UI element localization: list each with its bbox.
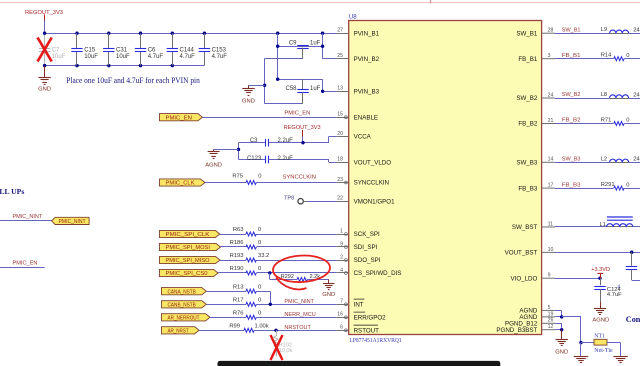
svg-text:L2: L2 <box>601 156 607 162</box>
svg-text:PMIC_SPI_CLK: PMIC_SPI_CLK <box>166 232 210 238</box>
net flag PMIC_SPI_MOSI <box>160 243 221 250</box>
net flag CANA_NSTB <box>162 288 207 295</box>
svg-text:VOUT_VLDO: VOUT_VLDO <box>354 159 392 166</box>
net tie NT1 <box>579 341 582 344</box>
svg-text:C31: C31 <box>116 48 128 54</box>
wire PVIN top rail <box>45 33 337 35</box>
svg-text:L9: L9 <box>601 27 607 33</box>
svg-text:20: 20 <box>337 131 343 137</box>
svg-text:4.7uF: 4.7uF <box>180 54 196 60</box>
ground GND (R292) <box>328 279 330 283</box>
svg-text:NRSTOUT: NRSTOUT <box>284 325 311 331</box>
junction dots top rail <box>43 32 46 35</box>
svg-text:R99: R99 <box>229 323 240 329</box>
pin 23 active marker <box>345 181 348 184</box>
svg-text:NERR_MCU: NERR_MCU <box>284 312 315 318</box>
wire C9 bottom loop <box>265 58 303 60</box>
net flag PMIC_EN <box>160 114 203 121</box>
ground GND (C9/C58) <box>249 85 265 87</box>
svg-text:1uF: 1uF <box>310 86 321 92</box>
ground (net-tie left) <box>580 343 582 357</box>
capacitor C58 <box>302 79 304 89</box>
net flag PMIC_SPI_MISO <box>160 256 221 263</box>
svg-text:FB_B2: FB_B2 <box>562 118 581 124</box>
svg-text:L8: L8 <box>601 92 607 98</box>
wire AGND pin5 <box>542 309 555 311</box>
svg-text:1: 1 <box>340 228 343 234</box>
svg-text:10uF: 10uF <box>84 54 98 60</box>
ground GND (PGND) <box>561 330 563 340</box>
svg-text:R75: R75 <box>232 174 243 180</box>
capacitor C31 <box>108 33 110 48</box>
svg-text:28: 28 <box>548 28 554 34</box>
svg-text:2.2uF: 2.2uF <box>278 156 294 162</box>
resistor R76 <box>210 317 246 319</box>
svg-text:SYNCCLKIN: SYNCCLKIN <box>354 180 389 187</box>
wire to chip <box>256 260 336 262</box>
svg-text:R190: R190 <box>230 266 244 272</box>
svg-text:PULL UPs: PULL UPs <box>0 187 24 196</box>
svg-text:PGND_B3BST: PGND_B3BST <box>496 327 537 334</box>
svg-text:FB_B2: FB_B2 <box>518 121 537 128</box>
svg-text:PMIC_EN: PMIC_EN <box>284 111 310 117</box>
svg-text:24: 24 <box>633 28 640 34</box>
wire TP8 to VMON1 <box>303 201 308 203</box>
svg-text:CANA_NSTB: CANA_NSTB <box>168 289 197 295</box>
svg-text:24: 24 <box>633 92 640 98</box>
wire SW_BST row <box>542 226 555 228</box>
svg-text:0: 0 <box>258 266 261 272</box>
resistor R291 row FB_B3 <box>542 187 555 189</box>
pin edge marker <box>345 329 348 332</box>
ground (net-tie right) <box>613 356 628 358</box>
red X over R102 <box>271 335 283 360</box>
pin 15 active marker <box>345 116 348 119</box>
wire net-tie right <box>607 342 621 344</box>
svg-text:AR_NERROUT: AR_NERROUT <box>168 315 201 321</box>
svg-text:0: 0 <box>626 118 629 124</box>
svg-text:PVIN_B3: PVIN_B3 <box>354 89 380 96</box>
wire NRSTOUT <box>254 330 336 332</box>
svg-text:R13: R13 <box>233 284 244 290</box>
svg-text:PMIC_NINT: PMIC_NINT <box>59 219 87 225</box>
pin overline INT <box>354 298 365 300</box>
svg-text:Net-Tie: Net-Tie <box>594 348 613 354</box>
svg-text:9: 9 <box>340 241 343 247</box>
net flag AR_NRST <box>162 327 200 334</box>
svg-text:3: 3 <box>548 53 551 59</box>
svg-text:ENABLE: ENABLE <box>354 114 378 121</box>
svg-text:TP8: TP8 <box>284 196 294 202</box>
svg-text:+3.3VD: +3.3VD <box>591 267 610 273</box>
resistor R102 (deleted, gray) <box>276 330 278 336</box>
wire VOUT_BST row <box>542 251 555 253</box>
svg-text:AR_NRST: AR_NRST <box>168 328 190 334</box>
svg-text:RSTOUT: RSTOUT <box>354 328 380 335</box>
pin edge marker <box>345 316 348 319</box>
svg-text:CANB_NSTB: CANB_NSTB <box>168 302 197 308</box>
resistor R13 <box>206 291 246 293</box>
svg-text:22: 22 <box>337 196 343 202</box>
svg-text:R76: R76 <box>233 310 244 316</box>
pin edge marker <box>345 272 348 275</box>
wire PMIC_NINT left <box>0 220 52 222</box>
svg-text:INT: INT <box>354 302 364 309</box>
svg-text:LP877451A1RXVRQ1: LP877451A1RXVRQ1 <box>349 337 401 344</box>
svg-text:Conn: Conn <box>626 315 640 324</box>
pin overline RSTOUT <box>354 324 378 326</box>
junction dots C9/C58 <box>276 45 279 48</box>
svg-text:C58: C58 <box>285 86 297 92</box>
ground AGND (C3/C123) <box>214 149 239 151</box>
svg-text:0: 0 <box>258 174 261 180</box>
svg-text:C153: C153 <box>212 48 227 54</box>
svg-text:SYNCCLKIN: SYNCCLKIN <box>283 174 317 180</box>
svg-text:15: 15 <box>337 112 343 118</box>
svg-text:GND: GND <box>242 99 255 105</box>
svg-text:SDI_SPI: SDI_SPI <box>354 244 378 251</box>
wire to chip <box>256 272 336 274</box>
ground GND (C7) <box>44 66 46 78</box>
svg-text:SDO_SPI: SDO_SPI <box>354 257 381 264</box>
junction R292 tap <box>268 271 271 274</box>
net flag PMIC_NINT (box) <box>52 217 90 224</box>
capacitor C123 <box>239 159 266 161</box>
svg-text:13: 13 <box>337 86 343 92</box>
svg-text:AGND: AGND <box>592 318 609 324</box>
svg-text:0: 0 <box>258 227 261 233</box>
svg-text:2: 2 <box>340 254 343 260</box>
svg-text:0: 0 <box>258 240 261 246</box>
black redaction bar <box>218 361 501 366</box>
wire SYNCCLKIN <box>256 182 336 184</box>
svg-text:VMON1/GPO1: VMON1/GPO1 <box>354 198 395 205</box>
svg-text:PMIC_NINT: PMIC_NINT <box>13 214 43 220</box>
resistor R63 <box>220 234 246 236</box>
wire VCCA <box>303 142 329 144</box>
wire AGND pin19 <box>542 316 555 318</box>
svg-text:R291: R291 <box>601 182 615 188</box>
svg-text:R63: R63 <box>233 227 244 233</box>
svg-text:R17: R17 <box>233 297 244 303</box>
svg-text:R14: R14 <box>601 53 612 59</box>
svg-text:C15: C15 <box>84 48 96 54</box>
resistor R193 <box>220 260 246 262</box>
pin edge marker <box>345 303 348 306</box>
svg-text:SW_B1: SW_B1 <box>562 27 581 33</box>
capacitor C153 <box>204 33 206 48</box>
svg-text:0: 0 <box>258 310 261 316</box>
wire VIO_LDO row <box>542 277 555 279</box>
capacitor C6 <box>140 33 142 48</box>
svg-text:C3: C3 <box>250 138 258 144</box>
svg-text:0: 0 <box>626 182 629 188</box>
resistor R14 row FB_B1 <box>542 58 555 60</box>
svg-text:NT1: NT1 <box>594 333 605 339</box>
red circle annotation around R292 <box>272 254 330 283</box>
svg-text:AGND: AGND <box>205 162 222 168</box>
svg-text:0: 0 <box>626 53 629 59</box>
svg-text:PMIC_SPI_MOSI: PMIC_SPI_MOSI <box>166 245 211 251</box>
svg-text:1uF: 1uF <box>310 40 321 46</box>
wire C58 row <box>278 79 323 81</box>
svg-text:33.2: 33.2 <box>258 253 269 259</box>
resistor R186 <box>221 246 247 248</box>
svg-text:PMIC_NINT: PMIC_NINT <box>284 299 314 305</box>
svg-text:Place one 10uF and 4.7uF for e: Place one 10uF and 4.7uF for each PVIN p… <box>66 75 200 85</box>
svg-text:GND: GND <box>38 86 51 92</box>
wire PVIN_B2 branch vertical x=322.6 <box>322 33 324 59</box>
pin edge marker <box>345 233 348 236</box>
svg-text:C123: C123 <box>247 156 262 162</box>
svg-text:L1: L1 <box>600 222 606 228</box>
svg-text:FB_B1: FB_B1 <box>562 53 581 59</box>
net flag CANB_NSTB <box>162 301 207 308</box>
svg-text:GND: GND <box>322 292 335 298</box>
ground AGND (C124) <box>600 302 602 309</box>
svg-text:C9: C9 <box>289 40 297 46</box>
resistor R99 <box>199 330 244 332</box>
wire SW_B2 row <box>542 97 555 99</box>
svg-text:R71: R71 <box>601 118 612 124</box>
svg-text:C7: C7 <box>52 48 60 54</box>
svg-text:SW_BST: SW_BST <box>512 224 538 231</box>
wire PMIC_EN left <box>0 267 45 269</box>
wire vertical x=277.7 <box>277 33 279 79</box>
svg-text:23: 23 <box>337 177 343 183</box>
wire PGND pin26 <box>542 322 555 324</box>
svg-text:SW_B3: SW_B3 <box>516 160 538 167</box>
pin 27 stub <box>337 33 349 35</box>
svg-text:PMIC_CLK: PMIC_CLK <box>166 181 195 187</box>
top pink border line <box>0 2 640 4</box>
wire PMIC_EN to ENABLE <box>202 117 336 119</box>
svg-text:C144: C144 <box>180 48 195 54</box>
svg-text:4.7uF: 4.7uF <box>607 292 622 298</box>
capacitor C7 (deleted, gray) <box>44 33 46 48</box>
resistor R292 <box>269 273 271 279</box>
pin edge marker <box>345 246 348 249</box>
wire SW_B3 row <box>542 161 555 163</box>
wire PGND pin12 <box>542 329 555 331</box>
net flag AR_NERROUT <box>162 314 211 321</box>
pin overline ERR <box>354 311 366 313</box>
wire to pin 25 <box>323 58 337 60</box>
resistor R71 row FB_B2 <box>542 123 555 125</box>
svg-text:R193: R193 <box>230 253 244 259</box>
svg-text:10uF: 10uF <box>52 54 66 60</box>
svg-text:PMIC_EN: PMIC_EN <box>166 115 193 121</box>
capacitor C3 <box>239 142 266 144</box>
svg-text:SW_B2: SW_B2 <box>516 95 538 102</box>
svg-text:PMIC_SPI_MISO: PMIC_SPI_MISO <box>166 258 210 264</box>
svg-text:2.2uF: 2.2uF <box>278 138 294 144</box>
svg-text:27: 27 <box>337 28 343 34</box>
svg-text:4.7uF: 4.7uF <box>212 54 228 60</box>
junction dots bottom rail <box>43 64 46 67</box>
svg-text:C6: C6 <box>148 48 156 54</box>
wire SW_B1 row <box>542 32 555 34</box>
svg-text:PMIC_SPI_CS0: PMIC_SPI_CS0 <box>166 271 208 277</box>
svg-text:1.00k: 1.00k <box>255 323 269 329</box>
svg-text:16: 16 <box>337 312 343 318</box>
svg-text:VOUT_BST: VOUT_BST <box>505 250 538 257</box>
net flag PMIC_SPI_CLK <box>160 230 220 237</box>
svg-text:FB_B3: FB_B3 <box>562 182 581 188</box>
net flag PMIC_CLK <box>160 179 206 186</box>
wire REGOUT_3V3 to PVIN rail <box>44 21 46 34</box>
svg-text:R186: R186 <box>230 240 244 246</box>
wire C3-C123 vertical <box>238 143 240 160</box>
capacitor C124 <box>600 278 602 285</box>
resistor R190 <box>218 272 246 274</box>
net flag PMIC_SPI_CS0 <box>160 269 219 276</box>
wire to chip <box>256 234 336 236</box>
svg-text:SW_B1: SW_B1 <box>516 30 538 37</box>
op-amp U8 body (PMIC) <box>349 21 542 335</box>
svg-text:VIO_LDO: VIO_LDO <box>510 275 537 282</box>
svg-text:4.7uF: 4.7uF <box>148 54 164 60</box>
svg-text:7: 7 <box>340 299 343 305</box>
svg-text:24: 24 <box>633 157 640 163</box>
capacitor C9 <box>297 45 308 47</box>
svg-text:PVIN_B2: PVIN_B2 <box>354 56 380 63</box>
svg-text:CS_SPI/WD_DIS: CS_SPI/WD_DIS <box>354 270 402 277</box>
svg-text:FB_B1: FB_B1 <box>518 56 537 63</box>
svg-text:PVIN_B1: PVIN_B1 <box>354 30 380 37</box>
red X over C7 <box>38 38 52 62</box>
svg-text:ERR/GPO2: ERR/GPO2 <box>354 315 387 322</box>
svg-text:25: 25 <box>337 53 343 59</box>
svg-text:0: 0 <box>258 284 261 290</box>
wire PMIC_NINT to INT pin <box>256 304 336 306</box>
svg-text:SCK_SPI: SCK_SPI <box>354 231 380 238</box>
svg-text:6: 6 <box>340 325 343 331</box>
svg-text:SW_B2: SW_B2 <box>562 92 581 98</box>
svg-text:VCCA: VCCA <box>354 134 372 141</box>
capacitor at VOUT_BST <box>631 252 633 266</box>
wire R13 to node <box>256 291 270 293</box>
svg-text:10uF: 10uF <box>116 54 130 60</box>
wire NERR_MCU <box>256 317 336 319</box>
junction R102 tap <box>274 329 277 332</box>
svg-text:PMIC_EN: PMIC_EN <box>13 260 38 266</box>
resistor R75 <box>205 182 246 184</box>
svg-text:SW_B3: SW_B3 <box>562 157 581 163</box>
svg-text:18: 18 <box>337 157 343 163</box>
wire PVIN bottom rail <box>45 65 205 67</box>
capacitor C144 <box>172 33 174 48</box>
svg-text:GND: GND <box>555 350 568 356</box>
wire AGND to net-tie <box>562 316 581 318</box>
svg-text:0: 0 <box>258 297 261 303</box>
wire to chip <box>256 246 336 248</box>
capacitor C15 <box>76 33 78 48</box>
resistor R17 <box>206 304 246 306</box>
svg-text:10.0k: 10.0k <box>279 348 293 354</box>
svg-text:4: 4 <box>340 267 343 273</box>
wire C9 row <box>278 46 323 48</box>
pin edge marker <box>345 259 348 262</box>
svg-text:FB_B3: FB_B3 <box>518 185 537 192</box>
wire to pin 13 <box>322 79 324 91</box>
svg-text:U8: U8 <box>349 15 357 21</box>
